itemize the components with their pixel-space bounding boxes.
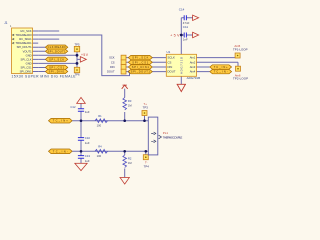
svg-text:SPI_DOUT1: SPI_DOUT1 — [131, 70, 151, 74]
svg-text:100: 100 — [97, 154, 102, 158]
svg-text:C12: C12 — [70, 105, 76, 109]
svg-text:SPI_DIN1: SPI_DIN1 — [20, 70, 32, 74]
svg-text:100: 100 — [97, 124, 102, 128]
svg-text:SPI_SCK: SPI_SCK — [132, 56, 148, 60]
svg-text:TRIG/READ0: TRIG/READ0 — [15, 33, 32, 37]
svg-text:Ain4: Ain4 — [190, 70, 196, 74]
svg-text:I2C_SDA1: I2C_SDA1 — [19, 37, 32, 41]
svg-text:Ain3: Ain3 — [190, 65, 196, 69]
svg-text:DIN: DIN — [168, 65, 173, 69]
svg-text:C14: C14 — [179, 7, 185, 11]
svg-text:DOUT: DOUT — [168, 70, 176, 74]
svg-text:R4: R4 — [98, 145, 102, 149]
svg-text:SPI_CS1: SPI_CS1 — [49, 65, 65, 69]
svg-text:CLK/READ0: CLK/READ0 — [48, 45, 67, 49]
svg-text:THERMOCOUPLE: THERMOCOUPLE — [163, 135, 183, 139]
svg-text:TC_IN-: TC_IN- — [214, 70, 228, 74]
svg-text:SCLK: SCLK — [168, 56, 175, 60]
svg-text:I2C_SCK: I2C_SCK — [20, 29, 31, 33]
svg-text:SPI_CS1: SPI_CS1 — [132, 60, 149, 64]
svg-text:TP3: TP3 — [143, 106, 149, 110]
svg-text:1nF: 1nF — [183, 38, 188, 42]
svg-text:J1: J1 — [4, 21, 8, 25]
svg-text:VOUT1: VOUT1 — [23, 49, 32, 53]
svg-text:Ain1: Ain1 — [190, 56, 196, 60]
svg-text:SPI_DIN1: SPI_DIN1 — [132, 65, 150, 69]
svg-text:15X30 SUPER MINI DIG FEMALE: 15X30 SUPER MINI DIG FEMALE — [12, 74, 77, 78]
svg-text:SPI_CLK: SPI_CLK — [21, 57, 32, 61]
svg-text:SCK: SCK — [109, 56, 115, 60]
svg-text:C13: C13 — [85, 154, 91, 158]
svg-text:R2: R2 — [128, 156, 132, 160]
svg-text:TP2-LOOP: TP2-LOOP — [233, 77, 248, 81]
svg-text:Ain2: Ain2 — [190, 60, 196, 64]
svg-text:GND: GND — [26, 53, 32, 57]
svg-text:1uF: 1uF — [85, 141, 90, 145]
svg-text:C11: C11 — [183, 25, 189, 29]
svg-text:TC_IN+: TC_IN+ — [214, 65, 228, 69]
svg-text:SPI_CS1: SPI_CS1 — [21, 65, 33, 69]
svg-text:TP1-LOOP: TP1-LOOP — [233, 47, 248, 51]
svg-text:TP6: TP6 — [75, 73, 80, 77]
svg-text:TRIG/READ1: TRIG/READ1 — [15, 41, 32, 45]
svg-text:U1: U1 — [167, 50, 171, 54]
svg-text:R1: R1 — [98, 114, 102, 118]
svg-text:TP4: TP4 — [144, 165, 150, 169]
svg-text:ADG731B: ADG731B — [187, 76, 201, 80]
svg-text:TP5: TP5 — [75, 43, 80, 47]
svg-text:47nF: 47nF — [183, 21, 190, 25]
svg-text:SPI_SCK: SPI_SCK — [49, 57, 64, 61]
svg-text:1uF: 1uF — [85, 110, 90, 114]
svg-text:TC_IN+: TC_IN+ — [53, 119, 68, 123]
svg-text:1uF: 1uF — [85, 159, 90, 163]
svg-text:C10: C10 — [85, 136, 91, 140]
svg-text:CS: CS — [168, 60, 172, 64]
svg-text:CS: CS — [111, 60, 115, 64]
svg-text:+5V: +5V — [170, 34, 180, 38]
svg-text:DOUT: DOUT — [107, 70, 115, 74]
svg-text:SPI_DOUT1: SPI_DOUT1 — [17, 45, 32, 49]
svg-text:GND: GND — [26, 61, 32, 65]
svg-text:SPI_DIN1: SPI_DIN1 — [49, 70, 66, 74]
svg-text:ADG731B: ADG731B — [179, 57, 183, 74]
svg-text:R3: R3 — [128, 99, 132, 103]
svg-text:+5V: +5V — [81, 53, 89, 57]
svg-text:SPI_DOUT1: SPI_DOUT1 — [48, 49, 67, 53]
svg-text:DIN: DIN — [110, 65, 115, 69]
